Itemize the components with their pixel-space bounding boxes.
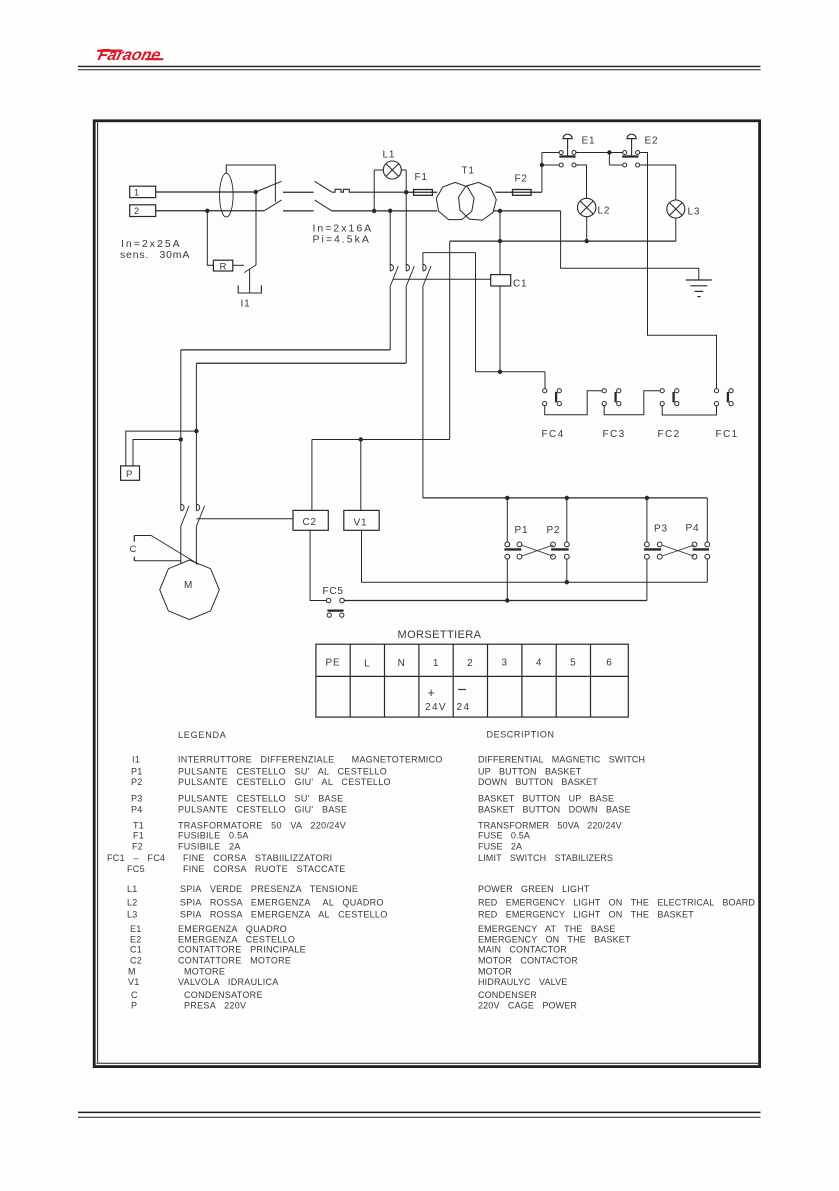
terminal block MORSETTIERA — [316, 644, 628, 717]
svg-text:FUSIBILE 2A: FUSIBILE 2A — [178, 841, 241, 851]
svg-text:E2: E2 — [130, 935, 142, 945]
push button P4 — [692, 542, 697, 547]
svg-text:F2: F2 — [515, 174, 528, 185]
contactor coil C2 — [293, 510, 328, 530]
I1 switch blade pole 2 — [264, 200, 282, 211]
I1 trip linkage — [226, 165, 275, 202]
wire riser to E1 — [541, 153, 543, 193]
svg-text:DIFFERENTIAL MAGNETIC SWITCH: DIFFERENTIAL MAGNETIC SWITCH — [478, 755, 645, 765]
emergency button E2 — [623, 151, 627, 155]
wire FC5 to buttons return — [344, 600, 647, 602]
wire P3 down — [646, 559, 648, 601]
wire contact3 top to FC chain riser — [423, 252, 476, 254]
wire C1 coil to FC chain — [499, 286, 501, 372]
svg-text:1: 1 — [433, 658, 439, 669]
hydraulic valve V1 — [344, 510, 379, 530]
wire contact1 to motor branch — [181, 349, 390, 351]
terminal box 2 — [130, 205, 156, 217]
wire E2 down to FC1 — [640, 153, 717, 389]
lamp L1 — [374, 169, 383, 171]
svg-text:N: N — [398, 658, 406, 669]
svg-text:C: C — [131, 990, 138, 1000]
svg-text:+: + — [427, 686, 435, 700]
svg-text:POWER GREEN LIGHT: POWER GREEN LIGHT — [478, 884, 590, 894]
limit switch FC4 — [543, 389, 547, 393]
wire drop to P4 — [706, 498, 708, 543]
svg-text:L2: L2 — [598, 206, 611, 217]
terminal box 1 — [130, 186, 156, 197]
wire E2 NO to lamp L3 — [640, 165, 676, 200]
push button P2 — [551, 542, 556, 547]
wire L1 left lead to pole2 — [373, 170, 375, 211]
C1 main contact 1 — [389, 211, 391, 271]
svg-text:P: P — [126, 469, 133, 480]
wire R to test switch — [233, 264, 244, 266]
push button P3 — [645, 542, 650, 547]
differential toroid of I1 — [220, 173, 234, 217]
C2 motor contact A — [181, 504, 184, 511]
wire 0V to C2 and V1 coils — [449, 241, 451, 439]
wire E1 to E2 — [576, 152, 623, 154]
wire FC chain feed — [476, 371, 546, 373]
emergency button E1 — [559, 151, 563, 155]
svg-text:5: 5 — [570, 658, 576, 669]
svg-text:C2: C2 — [303, 517, 317, 528]
wire down to resistor R — [207, 211, 213, 265]
bottom rule upper — [78, 1111, 761, 1113]
wire down to 0V rail — [499, 211, 501, 275]
svg-text:PULSANTE CESTELLO GIU' BASE: PULSANTE CESTELLO GIU' BASE — [178, 804, 347, 814]
svg-text:PULSANTE CESTELLO SU' BASE: PULSANTE CESTELLO SU' BASE — [178, 793, 343, 803]
wire pole1 between I1 and breaker — [283, 191, 314, 193]
svg-text:T1: T1 — [133, 821, 144, 831]
svg-text:L: L — [364, 659, 370, 670]
svg-text:BASKET BUTTON DOWN BASE: BASKET BUTTON DOWN BASE — [478, 804, 631, 814]
svg-text:1: 1 — [134, 187, 140, 197]
wire down from pole1 to test switch — [255, 192, 257, 265]
wire C2 coil pickup — [197, 518, 294, 520]
top rule upper — [78, 65, 761, 67]
transformer T1 — [436, 182, 474, 219]
breaker thermal element pole 1 — [332, 189, 406, 192]
svg-text:PULSANTE CESTELLO GIU' AL: PULSANTE CESTELLO GIU' AL CESTELLO — [178, 777, 391, 787]
svg-text:FC4: FC4 — [542, 429, 565, 440]
contactor coil C1 — [491, 275, 511, 286]
svg-text:P4: P4 — [686, 523, 700, 534]
svg-text:P2: P2 — [547, 525, 561, 536]
lamp L2 — [578, 198, 596, 216]
C1 main contact 2 — [406, 264, 409, 271]
svg-text:CONDENSER: CONDENSER — [478, 990, 537, 1000]
svg-text:FC5: FC5 — [323, 586, 344, 597]
svg-text:P1: P1 — [131, 766, 143, 776]
svg-text:EMERGENCY ON THE BASKET: EMERGENCY ON THE BASKET — [478, 935, 631, 945]
svg-text:P3: P3 — [654, 524, 668, 535]
svg-text:RED EMERGENCY LIGHT ON THE: RED EMERGENCY LIGHT ON THE BASKET — [478, 909, 694, 919]
wire N from box 2 — [156, 210, 264, 212]
svg-text:MOTOR: MOTOR — [478, 966, 512, 976]
svg-text:V1: V1 — [354, 517, 368, 528]
svg-text:LIMIT SWITCH STABILIZERS: LIMIT SWITCH STABILIZERS — [478, 853, 613, 863]
svg-text:BASKET BUTTON UP BASE: BASKET BUTTON UP BASE — [478, 793, 614, 803]
svg-text:SPIA ROSSA EMERGENZA AL Q: SPIA ROSSA EMERGENZA AL QUADRO — [180, 898, 384, 908]
svg-text:FC3: FC3 — [603, 429, 626, 440]
svg-text:C2: C2 — [130, 955, 142, 965]
svg-text:MOTOR CONTACTOR: MOTOR CONTACTOR — [478, 955, 578, 965]
svg-text:EMERGENZA CESTELLO: EMERGENZA CESTELLO — [178, 935, 295, 945]
svg-text:FC2: FC2 — [658, 429, 681, 440]
svg-text:TRANSFORMER 50VA 220/24V: TRANSFORMER 50VA 220/24V — [478, 821, 622, 831]
lamp L3 — [667, 200, 685, 218]
I1 test switch blade — [244, 265, 256, 273]
svg-text:L3: L3 — [127, 909, 138, 919]
motor M — [160, 560, 220, 620]
wire drop to P1 — [506, 498, 508, 543]
svg-text:VALVOLA IDRAULICA: VALVOLA IDRAULICA — [178, 977, 279, 987]
svg-text:SPIA VERDE PRESENZA TENSION: SPIA VERDE PRESENZA TENSIONE — [180, 884, 358, 894]
svg-text:PE: PE — [326, 658, 341, 669]
breaker blade pole 1 — [315, 181, 332, 192]
svg-text:FUSIBILE 0.5A: FUSIBILE 0.5A — [178, 831, 249, 841]
top rule lower — [78, 69, 761, 71]
svg-text:MORSETTIERA: MORSETTIERA — [398, 629, 482, 641]
capacitor C — [133, 536, 135, 542]
svg-text:24V: 24V — [425, 702, 447, 713]
wire contact2 to motor branch — [196, 362, 406, 364]
wire drop to P3 — [646, 498, 648, 543]
svg-text:sens. 30mA: sens. 30mA — [120, 249, 190, 261]
wire pole2 to transformer — [332, 210, 437, 212]
svg-text:E1: E1 — [582, 136, 596, 147]
drawing frame — [94, 121, 759, 1067]
wire P4 down — [706, 559, 708, 583]
svg-text:FUSE 2A: FUSE 2A — [478, 841, 522, 851]
svg-text:M: M — [128, 966, 136, 976]
wire T1 secondary bottom — [494, 210, 561, 212]
svg-text:4: 4 — [536, 658, 542, 669]
socket P 220V — [121, 466, 140, 480]
svg-text:MAIN CONTACTOR: MAIN CONTACTOR — [478, 945, 567, 955]
wire E1 NO to lamp L2 — [576, 165, 587, 198]
svg-text:CONTATTORE MOTORE: CONTATTORE MOTORE — [178, 955, 291, 965]
wire V1 return — [362, 530, 708, 582]
wire L from box 1 — [156, 191, 256, 193]
svg-text:LEGENDA: LEGENDA — [178, 730, 227, 740]
wire FC3 to FC2 — [604, 391, 660, 415]
wire C1 coil pickup from contact blade — [393, 278, 490, 280]
svg-text:2: 2 — [467, 658, 473, 669]
svg-text:Faraone: Faraone — [96, 46, 163, 64]
fuse F1 — [406, 191, 437, 193]
svg-text:M: M — [184, 580, 193, 591]
svg-text:L2: L2 — [127, 898, 138, 908]
wire button supply rail — [423, 497, 707, 499]
limit switch FC3 — [602, 389, 606, 393]
svg-text:RED EMERGENCY LIGHT ON THE: RED EMERGENCY LIGHT ON THE ELECTRICAL BO… — [478, 898, 755, 908]
svg-text:E1: E1 — [130, 924, 142, 934]
wire secondary to earth — [561, 211, 699, 280]
svg-text:P: P — [131, 1001, 137, 1011]
logo Faraone — [94, 46, 166, 64]
limit switch FC2 — [660, 389, 664, 393]
svg-text:TRASFORMATORE 50 VA 220/24V: TRASFORMATORE 50 VA 220/24V — [178, 821, 346, 831]
frame inner left line — [97, 123, 99, 1064]
svg-text:C1: C1 — [513, 279, 527, 290]
I1 switch blade pole 1 — [256, 181, 282, 192]
svg-text:F1: F1 — [415, 172, 428, 183]
svg-text:FINE CORSA RUOTE STACCATE: FINE CORSA RUOTE STACCATE — [183, 864, 346, 874]
svg-text:F2: F2 — [132, 841, 143, 851]
wire L3 to 0V rail — [675, 218, 677, 241]
cross wires P1-P2 — [521, 545, 553, 556]
svg-text:P2: P2 — [131, 777, 143, 787]
wire pole2 between I1 and breaker — [283, 210, 314, 212]
svg-text:DOWN BUTTON BASKET: DOWN BUTTON BASKET — [478, 777, 598, 787]
I1 trip symbol — [238, 285, 261, 293]
wire test switch to I1 trip — [249, 269, 251, 293]
wire L1 right lead / contactor feed — [405, 170, 407, 271]
svg-text:HIDRAULYC VALVE: HIDRAULYC VALVE — [478, 977, 567, 987]
wire L2 to 0V rail — [586, 217, 588, 241]
svg-text:L1: L1 — [383, 150, 396, 161]
wire P1 down — [506, 559, 508, 601]
limit switch FC5 — [326, 598, 331, 603]
svg-text:P3: P3 — [131, 793, 143, 803]
resistor R — [213, 260, 232, 271]
svg-text:3: 3 — [502, 658, 508, 669]
wire capacitor to motor — [151, 536, 198, 565]
svg-text:FUSE 0.5A: FUSE 0.5A — [478, 831, 530, 841]
svg-text:UP BUTTON BASKET: UP BUTTON BASKET — [478, 766, 582, 776]
bottom rule lower — [78, 1116, 761, 1118]
wire socket P right — [133, 440, 181, 466]
svg-text:2: 2 — [134, 206, 140, 216]
svg-text:6: 6 — [606, 658, 612, 669]
wire C2 to FC5 — [310, 530, 326, 600]
push button P1 — [505, 542, 510, 547]
svg-text:DESCRIPTION: DESCRIPTION — [487, 730, 555, 740]
svg-text:V1: V1 — [128, 977, 140, 987]
svg-text:CONTATTORE PRINCIPALE: CONTATTORE PRINCIPALE — [178, 945, 306, 955]
wire drop to P2 — [566, 498, 568, 543]
svg-text:P4: P4 — [131, 804, 143, 814]
svg-text:EMERGENZA QUADRO: EMERGENZA QUADRO — [178, 924, 287, 934]
wire socket P left — [126, 431, 197, 466]
C2 motor contact B — [196, 504, 199, 511]
terminal 2 marking -24 — [458, 689, 466, 691]
svg-text:PULSANTE CESTELLO SU' AL C: PULSANTE CESTELLO SU' AL CESTELLO — [178, 766, 387, 776]
svg-text:SPIA ROSSA EMERGENZA AL CE: SPIA ROSSA EMERGENZA AL CESTELLO — [180, 909, 388, 919]
svg-text:INTERRUTTORE DIFFERENZIALE: INTERRUTTORE DIFFERENZIALE MAGNETOTERMIC… — [178, 755, 443, 765]
svg-text:C1: C1 — [130, 945, 142, 955]
wire FC4 to FC3 — [545, 391, 603, 415]
svg-text:I1: I1 — [132, 755, 140, 765]
svg-text:FC5: FC5 — [127, 864, 145, 874]
svg-text:C: C — [130, 544, 138, 555]
fuse F2 — [513, 190, 532, 196]
wire FC2 to FC1 — [662, 406, 716, 415]
cross wires P3-P4 — [662, 545, 695, 556]
svg-text:E2: E2 — [645, 136, 659, 147]
svg-text:L3: L3 — [688, 207, 701, 218]
svg-text:L1: L1 — [127, 884, 138, 894]
frame inner bottom line — [97, 1062, 759, 1064]
svg-text:CONDENSATORE: CONDENSATORE — [184, 990, 263, 1000]
C1 auxiliary contact 3 — [422, 253, 424, 271]
svg-text:P1: P1 — [515, 525, 529, 536]
wire T1 secondary top to F2 — [495, 191, 512, 193]
svg-text:T1: T1 — [462, 166, 475, 177]
wire P2 down — [566, 559, 568, 583]
svg-text:Pi=4.5kA: Pi=4.5kA — [313, 234, 371, 246]
0V rail — [450, 240, 676, 242]
limit switch FC1 — [714, 389, 718, 393]
svg-text:I1: I1 — [241, 299, 251, 310]
svg-text:FC1: FC1 — [716, 429, 739, 440]
svg-text:24: 24 — [457, 702, 471, 713]
svg-text:EMERGENCY AT THE BASE: EMERGENCY AT THE BASE — [478, 924, 615, 934]
breaker blade pole 2 — [315, 200, 332, 211]
svg-text:R: R — [220, 261, 228, 272]
svg-text:MOTORE: MOTORE — [184, 966, 225, 976]
svg-text:220V CAGE POWER: 220V CAGE POWER — [478, 1001, 577, 1011]
svg-text:FC1 – FC4: FC1 – FC4 — [107, 853, 165, 863]
svg-text:PRESA 220V: PRESA 220V — [184, 1001, 246, 1011]
svg-text:F1: F1 — [133, 831, 144, 841]
svg-text:FINE CORSA STABIILIZZATORI: FINE CORSA STABIILIZZATORI — [183, 853, 332, 863]
earth ground symbol — [686, 279, 712, 281]
